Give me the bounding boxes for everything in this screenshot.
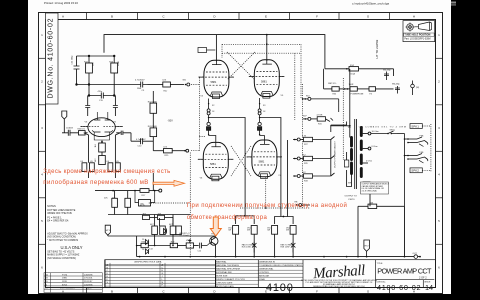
input network left [62, 111, 131, 136]
output power select switch [331, 122, 347, 177]
fuse FS2 [349, 67, 359, 71]
bias network row [137, 236, 218, 257]
capacitor C10 [131, 133, 153, 144]
TITLEBLOCK [44, 260, 436, 294]
dashed cross coupling row1 [227, 52, 255, 80]
dotted grid feed [191, 84, 199, 86]
svg-text:OUTPUT TX: OUTPUT TX [345, 196, 358, 198]
svg-text:MATERIAL: MATERIAL [216, 260, 227, 263]
bias test pair F [299, 204, 310, 207]
resistor R25 LK5 [164, 149, 173, 153]
svg-text:4100-60-02: 4100-60-02 [377, 283, 421, 292]
svg-text:8753: 8753 [62, 284, 68, 286]
svg-text:R40 LK1: R40 LK1 [78, 129, 85, 131]
svg-text:TO -10 mV: TO -10 mV [179, 235, 189, 237]
pot VR1 [186, 243, 193, 248]
dotted line to border right [422, 124, 431, 172]
svg-text:WIRES OFF THE PCB.: WIRES OFF THE PCB. [47, 212, 72, 215]
svg-text:T2.5A: T2.5A [350, 73, 356, 76]
cathode chain V5 [258, 98, 265, 140]
svg-text:B: B [111, 289, 113, 293]
unspecified hole data table [105, 263, 216, 288]
svg-text:E: E [265, 14, 267, 18]
resistor R40 [79, 131, 86, 135]
svg-text:C11 100p: C11 100p [72, 55, 74, 65]
svg-text:APPROVED DATE: APPROVED DATE [216, 285, 234, 288]
speaker jack 2 [405, 154, 428, 164]
svg-text:G: G [162, 273, 164, 275]
wire U-top right [275, 217, 294, 225]
resistor R41 tail [99, 142, 106, 165]
svg-text:обмотке трансформатора: обмотке трансформатора [187, 215, 268, 221]
drawn/checked block [216, 263, 259, 284]
pot VR3 [163, 82, 171, 87]
bias feed chain C [293, 137, 331, 141]
copyright small print [301, 279, 378, 288]
bias test row A [303, 97, 339, 112]
svg-text:SPK2: SPK2 [411, 169, 419, 173]
capacitor right of tube [116, 131, 131, 135]
svg-text:4.7n/400V: 4.7n/400V [136, 139, 146, 141]
svg-text:CONTROL: CONTROL [259, 272, 270, 274]
svg-text:U.S.A ONLY: U.S.A ONLY [61, 245, 83, 250]
svg-text:FINAL: FINAL [259, 278, 266, 281]
svg-text:NOTES:: NOTES: [47, 205, 56, 208]
svg-text:SPK1: SPK1 [411, 124, 419, 128]
grid numbers right [438, 33, 440, 270]
grid row dividers side bands [39, 58, 443, 244]
speaker jack 1 [397, 134, 428, 207]
svg-text:UNSPECIFIED HOLE DATA: UNSPECIFIED HOLE DATA [134, 260, 162, 263]
svg-text:2 OF 2: 2 OF 2 [419, 277, 427, 280]
svg-text:56K: 56K [370, 202, 374, 204]
grid column dividers bottom band [87, 288, 390, 294]
trimmer C16 [113, 96, 118, 117]
svg-text:1985: 1985 [62, 278, 68, 280]
dimensions block [258, 263, 303, 281]
svg-text:5W: 5W [286, 230, 289, 232]
output tube V5 [249, 60, 285, 98]
wire U-top left [236, 216, 255, 224]
svg-text:5W: 5W [267, 230, 270, 232]
svg-text:-50V: -50V [168, 119, 174, 122]
svg-text:4 & 8 OHM (USA): 4 & 8 OHM (USA) [362, 189, 377, 192]
feedback row RET [324, 69, 394, 91]
tail resistor pair right [108, 133, 120, 178]
svg-text:5881: 5881 [211, 80, 217, 84]
svg-text:5W: 5W [247, 230, 250, 232]
svg-text:14/06/96: 14/06/96 [84, 274, 93, 276]
svg-text:* NOT FITTED TO COMBOS: * NOT FITTED TO COMBOS [47, 239, 78, 242]
DWG number box [46, 13, 59, 104]
svg-text:1D: 1D [45, 281, 48, 283]
output tube V7 [247, 140, 283, 178]
grid stopper box V4 [198, 48, 207, 53]
svg-text:Здесь кроме напряжения смещени: Здесь кроме напряжения смещения есть [43, 169, 170, 175]
orange arrow right [153, 180, 185, 186]
extra bias parts [143, 215, 174, 233]
revision table [44, 273, 102, 293]
transistor TR1 [210, 237, 218, 245]
svg-text:5W: 5W [228, 230, 231, 232]
svg-text:8 Ohm: 8 Ohm [372, 146, 378, 148]
svg-text:21/11/97: 21/11/97 [84, 281, 93, 283]
capacitor C11 [74, 56, 80, 80]
svg-text:D6: D6 [142, 249, 144, 251]
output transformer T1 [352, 119, 362, 189]
capacitor C input [62, 130, 79, 136]
grid letters top [62, 14, 415, 18]
svg-text:c:\mydocs\4100pwr_osch.dga: c:\mydocs\4100pwr_osch.dga [352, 1, 389, 5]
svg-text:4.7n/400V: 4.7n/400V [135, 80, 145, 82]
svg-text:OUTPUT POWER SELECT: OUTPUT POWER SELECT [334, 140, 336, 168]
diodes D5 D6 [146, 240, 149, 255]
wire V4 anode [198, 35, 267, 62]
bias feed chain D [293, 156, 331, 160]
svg-text:TITLE: TITLE [377, 263, 383, 265]
cathode resistor 1 [233, 226, 297, 257]
svg-text:D5: D5 [142, 239, 144, 241]
svg-text:DRWN C.DEA APP 27/1-71/93: DRWN C.DEA APP 27/1-71/93 [216, 278, 245, 281]
svg-text:R42 100K: R42 100K [148, 101, 158, 103]
inner border [46, 20, 436, 288]
svg-text:5881: 5881 [261, 80, 267, 84]
svg-text:DIMENSIONS IN: DIMENSIONS IN [259, 261, 275, 263]
svg-text:E4 = GRID REF. E4.: E4 = GRID REF. E4. [47, 220, 69, 223]
svg-text:(W): (W) [416, 87, 420, 89]
svg-text:POWERFUSE: POWERFUSE [351, 94, 365, 96]
svg-text:FSB: FSB [420, 152, 425, 154]
bias test row B [303, 117, 333, 122]
flag P1 [62, 111, 67, 119]
svg-text:RET./O/-: RET./O/- [328, 83, 337, 85]
tube V3 ECC83 phase splitter [81, 112, 124, 142]
svg-text:10/09/96: 10/09/96 [84, 284, 93, 286]
impedance select note box [361, 182, 390, 194]
title box [376, 280, 435, 288]
SPK2 box [410, 168, 422, 173]
svg-text:4100: 4100 [266, 282, 294, 294]
window icon in black margin [451, 2, 456, 4]
cathode chain V4 [207, 99, 216, 143]
svg-text:CHECKED DATE: CHECKED DATE [216, 281, 233, 284]
resistor 56K [358, 204, 405, 257]
caps right of fuse [384, 72, 414, 96]
svg-text:R28 1/2W: R28 1/2W [281, 247, 290, 249]
svg-text:4.7K: 4.7K [302, 135, 307, 137]
svg-text:WH: WH [348, 183, 352, 185]
HT fuse row [325, 67, 394, 76]
wire node bus upper left [77, 55, 115, 57]
svg-text:C3070: C3070 [348, 199, 355, 201]
wire anode row [77, 80, 136, 85]
svg-text:F: F [316, 289, 318, 293]
NOTES [47, 21, 434, 260]
tail resistor pair left [82, 133, 94, 178]
grid letters bottom [62, 289, 415, 293]
svg-text:16 Ohm: 16 Ohm [372, 131, 379, 133]
svg-text:FSB: FSB [420, 136, 425, 138]
svg-text:DATE: DATE [86, 287, 92, 290]
crosshair symbol [407, 24, 414, 31]
switch SW1a [388, 131, 397, 134]
resistor R23 [111, 63, 118, 73]
svg-text:4 Ohm: 4 Ohm [366, 161, 372, 163]
svg-text:1n/400V: 1n/400V [66, 128, 74, 130]
dotted vertical mid column [294, 53, 296, 120]
svg-text:пилообразная переменка 600 мВ: пилообразная переменка 600 мВ [43, 180, 148, 186]
svg-text:H: H [413, 14, 415, 18]
svg-text:MATERIAL SPEC/FINISH: MATERIAL SPEC/FINISH [216, 267, 240, 270]
dotted off-pcb lines top [191, 44, 310, 208]
svg-text:(NO SIGNAL CONDITION): (NO SIGNAL CONDITION) [47, 257, 76, 260]
svg-text:R43 100K: R43 100K [148, 126, 158, 128]
svg-text:100R: 100R [349, 84, 354, 86]
svg-text:При подключении получаем ступе: При подключении получаем ступеньку на ан… [187, 202, 347, 209]
transformer primary leads [331, 69, 352, 187]
svg-text:4.7GR: 4.7GR [317, 115, 323, 117]
notes text block [47, 205, 88, 242]
svg-text:DIMENSIONAL: DIMENSIONAL [259, 267, 274, 270]
dashed cross coupling row2 [231, 146, 251, 176]
svg-text:ECO NUMBER: ECO NUMBER [60, 288, 75, 290]
grid numbers left [41, 33, 43, 270]
capacitor C15 [89, 85, 114, 99]
svg-text:DWG.No. 4100-60-02: DWG.No. 4100-60-02 [47, 18, 54, 98]
svg-text:B: B [111, 14, 113, 18]
svg-text:HC19: HC19 [140, 205, 145, 207]
svg-text:Printed: 13 Aug 2003 15:16: Printed: 13 Aug 2003 15:16 [44, 1, 78, 5]
orange arrow down [210, 217, 221, 236]
svg-text:EXTERNAL REF: EXTERNAL REF [216, 271, 232, 274]
SPK1 box [410, 124, 422, 129]
title block outline [105, 260, 436, 288]
wire screen feed right [260, 118, 281, 217]
trimmer C14 [85, 96, 90, 117]
transformer secondary taps [363, 132, 388, 206]
wire HT top rail [104, 35, 325, 69]
wire screen feed left [209, 118, 294, 225]
svg-text:A: A [62, 14, 64, 18]
svg-text:5881: 5881 [210, 162, 216, 166]
svg-text:ON COMBOS OK1 TO 4 OHM: ON COMBOS OK1 TO 4 OHM [359, 126, 406, 128]
svg-text:MATERIAL THICKNESS: MATERIAL THICKNESS [216, 264, 239, 267]
bias row VR2 [95, 173, 162, 206]
svg-text:BORE SIZE: BORE SIZE [216, 275, 228, 277]
svg-text:J: J [162, 276, 163, 278]
svg-text:Part: LOOSEGRP1-030M: Part: LOOSEGRP1-030M [404, 37, 430, 40]
svg-text:DENBIGH ROAD, BLETCHLEY, MILTO: DENBIGH ROAD, BLETCHLEY, MILTON KEYNES, … [313, 285, 366, 288]
wire dotted off-board left [149, 153, 191, 258]
resistor R22 [86, 63, 93, 73]
svg-text:5881: 5881 [259, 160, 265, 164]
node dots [76, 55, 115, 96]
output tube V4 [199, 60, 235, 98]
svg-text:SW1a: SW1a [390, 130, 396, 132]
resistor R38 [99, 156, 106, 165]
HT2 flag [364, 240, 370, 257]
outer border [39, 13, 443, 294]
output tube V6 [198, 142, 234, 180]
svg-text:TUBE HOLE POSITION: TUBE HOLE POSITION [404, 34, 430, 37]
svg-text:1M: 1M [95, 144, 97, 147]
right column R42 R43 [131, 91, 189, 153]
wire V5 anode [266, 35, 268, 61]
svg-text:SM+68p: SM+68p [392, 84, 400, 86]
cathode resistor 4 [290, 226, 296, 235]
diode/thermistor marks [252, 242, 295, 253]
main ground bus [137, 206, 420, 256]
svg-text:SM+68p: SM+68p [383, 70, 391, 72]
bias supply: resistors under VR2 [108, 191, 190, 215]
svg-text:14: 14 [425, 283, 433, 292]
svg-text:17/10/01: 17/10/01 [84, 278, 93, 280]
cathode resistor 2 [251, 226, 257, 235]
svg-text:R26 1/2W: R26 1/2W [242, 247, 251, 249]
dotted line off pcb mid right [342, 78, 344, 160]
svg-text:1199: 1199 [62, 281, 67, 283]
svg-text:SK1: SK1 [183, 80, 187, 82]
svg-text:10K: 10K [93, 62, 95, 66]
svg-text:TOLERANCE UNLESS OTHERWISE STA: TOLERANCE UNLESS OTHERWISE STATED [259, 264, 303, 267]
svg-text:F: F [316, 14, 318, 18]
grid column dividers top band [87, 13, 390, 20]
svg-text:HT TO 2HP02: HT TO 2HP02 [375, 39, 379, 58]
svg-text:POWER AMP CCT: POWER AMP CCT [377, 267, 432, 276]
bias feed chain E [293, 174, 331, 178]
svg-text:100K: 100K [118, 61, 120, 66]
bus junction dots [139, 256, 421, 258]
ANNOTATIONS [43, 169, 347, 236]
svg-text:P170: P170 [62, 274, 68, 276]
bias divider resistors [152, 215, 182, 246]
HT3 flag [105, 225, 166, 236]
capacitor C12 [200, 243, 207, 249]
cathode resistor 3 [272, 226, 278, 235]
capacitor C9 [136, 82, 148, 88]
funnel symbol [419, 22, 432, 31]
tube hole position box [403, 21, 435, 42]
OUT terminal [414, 255, 418, 259]
svg-text:ANGULAR: ANGULAR [259, 274, 270, 277]
